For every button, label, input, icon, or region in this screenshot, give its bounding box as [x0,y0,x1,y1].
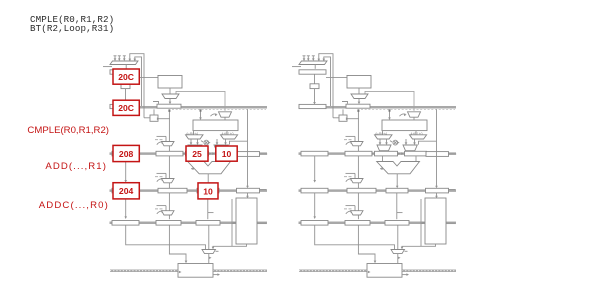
data memory [367,264,402,278]
wire regfile B out [226,131,228,135]
mux A bypass [375,135,393,139]
mux B bypass 2 [214,145,228,151]
control hook (RF stage) [157,142,164,145]
wire annul control [365,91,414,111]
operand box 10 (MEM) [198,183,218,199]
instr register box 20C (fetch) [113,69,139,84]
instruction memory [158,76,182,89]
svg-text:208: 208 [119,149,134,159]
label tiny (RF stage) [344,139,347,141]
register PC_MEM slot [112,188,139,193]
wire imem to instruction mux [358,88,360,94]
pipeline register row RF/EXE [299,152,457,155]
mux B bypass [221,135,238,139]
wire PC to +4 [314,74,316,84]
ALU tick [380,168,383,170]
operand box 25 [186,146,208,161]
wire wdata to WB mux [213,244,247,248]
wire IR column RF [168,109,170,151]
register IR_WB [345,221,370,226]
pipeline register row EXE/MEM [299,189,457,192]
wire memory out [213,274,219,276]
control hook (MEM stage) [346,211,353,214]
wire dashed control row [361,108,455,110]
arrow into A [371,152,374,155]
register D bus [237,188,260,193]
symbol nop insert [393,140,398,145]
mux B bypass [410,135,427,139]
wire bypass bus to B mux [230,141,248,144]
wire reset stub [103,66,112,68]
register A [186,151,209,156]
wire wdata to WB mux [402,244,436,248]
wire D stub right [449,189,456,191]
adder branch target [339,115,347,121]
label tiny (EXE stage) [155,176,158,178]
adder branch target [150,115,158,121]
wire annul control [176,91,225,111]
control hook (EXE stage) [157,179,164,182]
register Y_MEM slot [197,188,219,193]
register D bus [426,188,449,193]
label tiny (MEM stage) [155,208,158,210]
register Y bus [426,152,449,157]
register PC_MEM slot [301,188,328,193]
wire control stub (RF stage) [157,135,167,137]
pipeline register row WB right part [402,269,456,272]
wire IR column WB [169,225,186,262]
wire ra field to regfile [389,109,391,118]
wire dashed control row [172,108,266,110]
mux instruction select [351,94,368,99]
register PC_WB slot [112,221,139,226]
code listing top-left [30,15,114,34]
arrow into memory [368,271,371,274]
mux A bypass 2 [188,145,202,151]
instr register box 20C (RF) [113,100,139,115]
wire instruction to IR [169,99,171,103]
wire IR column EXE [357,156,359,188]
mux (RF stage) [162,142,175,146]
register IR_RF [346,104,370,108]
pipeline register row WB left part [110,269,178,272]
svg-text:25: 25 [192,149,202,159]
red label CMPLE(R0,R1,R2) [0,125,109,136]
mux PCSEL [299,61,327,65]
wire Y hook [208,212,214,214]
wire jump-target feedback [135,57,142,106]
pipeline register row MEM/WB right part [446,222,456,225]
register PC_EXE slot [112,151,139,156]
wire B mux2 out [409,151,411,152]
arrow into memory [179,271,182,274]
register Y_MEM slot [386,188,408,193]
mux WASEL [408,112,421,117]
wire B to ALU [415,156,417,162]
wire IR column MEM [168,193,170,219]
wire wasel to regfile [413,117,415,120]
wire A to ALU [193,156,195,162]
arrow into B [212,152,215,155]
mux WDSEL [391,250,405,254]
wire control stub (EXE stage) [346,172,356,174]
arrow into wdata [422,222,425,225]
register IR_WB [156,221,181,226]
wire A mux2 out [383,151,385,152]
instr register box 208 [113,145,139,161]
wire C field into adder [158,118,170,120]
register IR_EXE [345,151,372,156]
instruction memory [347,76,371,89]
wire branch-target feedback [319,54,333,118]
register PC_RF slot [299,104,326,108]
mux instruction select [162,94,179,99]
pipeline register row WB right part [213,269,267,272]
wire branch adder to pcsel [333,117,339,119]
svg-text:20C: 20C [118,72,134,82]
wire PC column MEM [314,193,316,218]
register IR_MEM [158,188,187,193]
label tiny (MEM stage) [344,208,347,210]
register PC [110,70,137,74]
wire Y stub right [260,153,267,155]
wire Y column WB [208,225,210,249]
wire PC column WB [126,225,206,249]
wire regfile B out [415,131,417,135]
register IR_MEM [347,188,376,193]
wire PC_RF to branch adder [342,109,344,115]
wire reset stub [292,66,301,68]
mux PCSEL [110,61,138,65]
wire wdata right stub [446,222,456,224]
arrow into wdata [233,222,236,225]
wire PC column EXE [314,156,316,181]
wire regfile A out [193,131,195,135]
wire PC column EXE [125,156,127,181]
wire bypass bus vertical [247,109,249,186]
register IR_RF [157,104,181,108]
wire PC to instruction memory [137,77,158,79]
register file [193,120,238,131]
pipeline register row IF/RF [110,106,268,109]
mux (MEM stage) [162,211,175,215]
arrow into A [182,152,185,155]
wire PC column MEM [125,193,127,218]
label tiny (EXE stage) [344,176,347,178]
wire regfile A out [382,131,384,135]
wire ALU out [396,174,398,187]
wire B mux2 out [220,151,222,152]
ALU [188,162,231,174]
control hook (MEM stage) [157,211,164,214]
mux (EXE stage) [351,179,364,183]
mux A bypass 2 [377,145,391,151]
svg-text:20C: 20C [118,103,134,113]
wire Y column WB [397,225,399,249]
wire +4 down to PC_RF [125,89,127,103]
mux (RF stage) [351,142,364,146]
svg-text:10: 10 [222,149,232,159]
red label ADDC(...,R0) [0,200,109,211]
mux B bypass 2 [403,145,417,151]
wire pcsel out [314,65,316,69]
wire control stub (RF stage) [346,135,356,137]
red label ADD(...,R1) [0,161,107,172]
wire WDSEL out [208,254,210,264]
pipeline register row MEM/WB left part [299,222,426,225]
wire IR column RF [357,109,359,151]
mux A bypass [186,135,204,139]
wdsel right tick [216,250,219,252]
wire into wdata rect [420,199,422,246]
wire wdata right stub [257,222,267,224]
svg-text:10: 10 [203,186,213,196]
wire control stub (EXE stage) [157,172,167,174]
wire Y column MEM [207,193,209,219]
ALU [377,162,420,174]
mux (EXE stage) [162,179,175,183]
register Y_WB slot [196,221,220,226]
wire ir bar hook [153,102,159,104]
wire jump-target feedback [324,57,331,106]
wire PC_RF to branch adder [153,109,155,115]
wire memory out [402,274,408,276]
register B [405,151,427,156]
wire A to ALU [382,156,384,162]
wire WDSEL out [397,254,399,264]
wire Y hook [397,212,403,214]
wire branch-target feedback [130,54,144,118]
wire A mux2 out [194,151,196,152]
pipeline register row MEM/WB right part [257,222,267,225]
wasel hook [400,114,406,116]
wire B mux1 out [405,139,407,144]
wire pcsel out [125,65,127,69]
register B [216,151,238,156]
pcsel mux inputs [303,56,305,60]
control hook (RF stage) [346,142,353,145]
pipeline register row MEM/WB left part [110,222,237,225]
label tiny (RF stage) [155,139,158,141]
pipeline register row RF/EXE [110,152,268,155]
right datapath diagram [292,54,456,278]
register Y bus [237,152,260,157]
register PC_EXE slot [301,151,328,156]
pipeline register row IF/RF [299,106,457,109]
register file [382,120,427,131]
pipeline register row EXE/MEM [110,189,268,192]
wire D stub right [260,189,267,191]
wire B mux1 out [216,139,218,144]
write data buffer [236,198,257,244]
wire instruction to IR [358,99,360,103]
register PC_RF slot [110,104,137,108]
mux WDSEL [202,250,216,254]
wire PC column WB [315,225,395,249]
wire IR column MEM [357,193,359,219]
arrow into B [401,152,404,155]
wire +4 down to PC_RF [314,89,316,103]
wire PC to instruction memory [326,77,347,79]
symbol nop insert [204,140,209,145]
pipeline register row WB left part [299,269,367,272]
wire C field into adder [347,118,359,120]
wire Y stub right [449,153,456,155]
wdsel right tick [405,250,408,252]
wire IR column WB [358,225,375,262]
instr register box 204 [113,183,139,199]
pcsel mux inputs [114,56,116,60]
wire wasel to regfile [224,117,226,120]
wire bypass bus vertical [436,109,438,186]
wire ALU out [207,174,209,187]
register A [375,151,398,156]
wire control stub (MEM stage) [157,205,167,207]
adder +4 [121,84,130,89]
mux WASEL [219,112,232,117]
wire ir bar hook [342,102,348,104]
register PC_WB slot [301,221,328,226]
wire Y column MEM [396,193,398,219]
control hook (EXE stage) [346,179,353,182]
wire branch adder to pcsel [144,117,150,119]
wire PC to +4 [125,74,127,84]
operand box 10 [216,146,237,161]
data memory [178,264,213,278]
register IR_EXE [156,151,183,156]
left datapath diagram [103,54,267,278]
wire into wdata rect [231,199,233,246]
svg-text:204: 204 [119,186,134,196]
ALU tick [191,168,194,170]
wire bypass bus to B mux [419,141,437,144]
wire imem to instruction mux [169,88,171,94]
register Y_WB slot [385,221,409,226]
adder +4 [310,84,319,89]
wire A mux1 out [379,139,381,144]
wire IR column EXE [168,156,170,188]
wire ra field to regfile [200,109,202,118]
wire control stub (MEM stage) [346,205,356,207]
wasel hook [211,114,217,116]
write data buffer [425,198,446,244]
wire A mux1 out [190,139,192,144]
register PC [299,70,326,74]
wire B to ALU [226,156,228,162]
mux (MEM stage) [351,211,364,215]
